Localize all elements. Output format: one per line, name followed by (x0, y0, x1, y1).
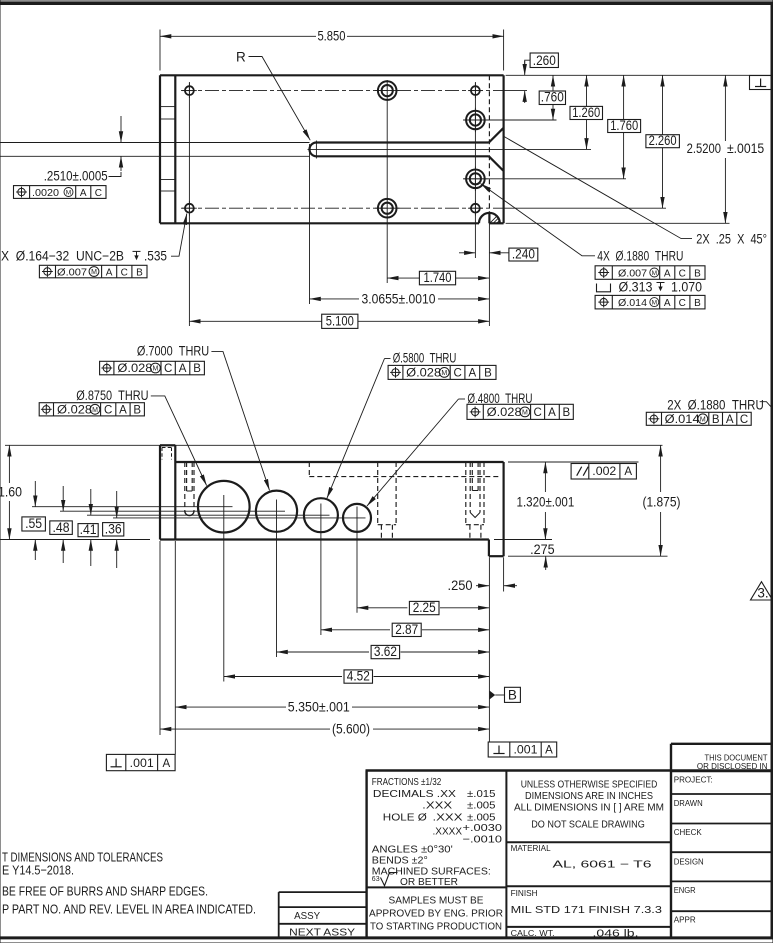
counterbore hole right-upper (463, 108, 487, 132)
svg-text:UNLESS OTHERWISE SPECIFIED: UNLESS OTHERWISE SPECIFIED (521, 779, 658, 791)
column line right holes (474, 82, 476, 258)
slot centerline right extension (326, 148, 592, 150)
counterbore hole bottom-center (375, 199, 399, 218)
dimension 3.62 (277, 651, 370, 653)
dimension (1.875) (660, 445, 662, 492)
svg-text:.760: .760 (541, 90, 564, 105)
dimension .48 (50, 521, 73, 535)
svg-text:.046 lb.: .046 lb. (593, 928, 639, 940)
flag note triangle 3 (751, 582, 773, 600)
svg-text:−.0010: −.0010 (463, 834, 503, 846)
svg-text:±.015: ±.015 (467, 788, 496, 800)
svg-text:MIL STD 171 FINISH 7.3.3: MIL STD 171 FINISH 7.3.3 (511, 904, 662, 916)
dimension .260 (530, 53, 558, 68)
svg-text:Ø.028: Ø.028 (406, 368, 441, 380)
svg-text:Ø.313: Ø.313 (619, 280, 653, 295)
hatched notch at bottom edge (479, 213, 500, 223)
bore center verticals (224, 495, 357, 682)
svg-text:ENGR: ENGR (674, 885, 696, 895)
counterbore hole top-center (375, 81, 399, 100)
tapped hole bottom-left (182, 201, 197, 216)
fcf .007 M A C B row1 (595, 266, 705, 280)
bore circle .7000 (256, 491, 297, 532)
svg-text:.41: .41 (80, 522, 97, 537)
dimension (5.600) (160, 728, 330, 730)
fcf .5800 (388, 365, 496, 379)
svg-text:C: C (95, 188, 102, 199)
svg-text:A: A (664, 269, 671, 280)
svg-text:DESIGN: DESIGN (674, 857, 704, 867)
svg-text:2.87: 2.87 (395, 622, 418, 637)
dimension 1.760 (623, 75, 625, 119)
extension line bottom left (0, 539, 150, 541)
svg-text:.535: .535 (144, 248, 167, 263)
svg-text:Ø.028: Ø.028 (57, 404, 92, 416)
svg-text:CHECK: CHECK (674, 827, 702, 837)
dimension 1.740 (387, 277, 419, 279)
slot chamfer edges 2X .25 X 45 (489, 128, 504, 171)
svg-text:5.350±.001: 5.350±.001 (288, 700, 350, 715)
dimension .760 (552, 75, 554, 91)
svg-text:.55: .55 (25, 516, 42, 531)
hidden step line (488, 75, 490, 212)
fcf perpendicular .001 A right (488, 742, 557, 757)
svg-text:B: B (193, 363, 201, 375)
svg-text:4.52: 4.52 (347, 669, 370, 684)
dimension 4.52 (224, 676, 342, 678)
centerline hole row upper (181, 90, 504, 92)
tapped hole bottom-right (468, 201, 483, 216)
fcf parallelism .002 A (571, 464, 636, 480)
dimension 1.260 (586, 75, 588, 106)
svg-text:Ø.014: Ø.014 (618, 298, 647, 309)
column line step below plate (488, 223, 490, 326)
svg-text:R: R (236, 50, 246, 65)
svg-text:DIMENSIONS ARE IN INCHES: DIMENSIONS ARE IN INCHES (525, 790, 653, 802)
svg-text:1.320±.001: 1.320±.001 (517, 495, 575, 510)
dimension .36 (103, 523, 124, 536)
top view plate outline (160, 75, 504, 223)
svg-text:3.: 3. (757, 586, 768, 601)
dimension 5.350 +-.001 (175, 706, 286, 708)
column line left holes (188, 82, 190, 326)
svg-text:2.25: 2.25 (413, 600, 436, 615)
svg-text:A: A (545, 744, 553, 756)
svg-text:Ø.028: Ø.028 (117, 363, 152, 375)
fcf .7000 (100, 361, 205, 375)
svg-text:B: B (694, 269, 701, 280)
assy table (279, 892, 367, 938)
svg-text:C: C (679, 269, 686, 280)
svg-text:Ø.7000 THRU: Ø.7000 THRU (137, 344, 209, 359)
svg-text:C: C (453, 368, 461, 380)
svg-text:2.260: 2.260 (649, 133, 677, 148)
svg-text:TO STARTING PRODUCTION: TO STARTING PRODUCTION (370, 921, 502, 933)
svg-text:B: B (694, 298, 701, 309)
datum flag B (490, 691, 496, 700)
svg-text:4X Ø.1880 THRU: 4X Ø.1880 THRU (597, 249, 683, 264)
fcf .014 B A C (646, 412, 751, 425)
svg-text:APPROVED BY ENG. PRIOR: APPROVED BY ENG. PRIOR (369, 908, 503, 920)
svg-text:.275: .275 (530, 542, 555, 557)
svg-text:B: B (133, 404, 141, 416)
svg-text:C: C (679, 298, 686, 309)
svg-text:A: A (119, 404, 127, 416)
extension line bottom edge right (506, 222, 730, 224)
dimension 2.5200 +-.0015 (724, 75, 726, 141)
svg-text:.48: .48 (53, 520, 70, 535)
extension line top edge right (506, 74, 772, 76)
svg-text:Ø.028: Ø.028 (487, 407, 522, 419)
svg-text:BE FREE OF BURRS AND SHARP EDG: BE FREE OF BURRS AND SHARP EDGES. (2, 883, 208, 898)
dimension .41 (78, 524, 98, 537)
dimension 1.60 (8, 445, 10, 483)
column line slot end (309, 144, 311, 304)
tolerance block border (365, 771, 367, 939)
svg-text:5.100: 5.100 (326, 313, 354, 328)
dimension 5.100 (189, 320, 321, 322)
svg-text:DRAWN: DRAWN (674, 798, 703, 808)
dimension 2.260 (662, 75, 664, 134)
dimension .240 (459, 252, 475, 254)
svg-text:DO NOT SCALE DRAWING: DO NOT SCALE DRAWING (531, 819, 645, 831)
tapped hole top-right (468, 83, 483, 98)
svg-text:.240: .240 (512, 246, 535, 261)
extension line cbore row lower (463, 178, 626, 180)
svg-text:A: A (726, 414, 734, 426)
counterbore .313 depth 1.070 row2 (597, 284, 611, 292)
top view band hidden marks (160, 107, 175, 191)
svg-text:5.850: 5.850 (317, 28, 345, 43)
svg-text:NEXT ASSY: NEXT ASSY (289, 927, 355, 939)
extension verticals below side view (160, 541, 504, 754)
fcf perpendicular .001 A left (106, 754, 175, 770)
svg-text:CALC. WT.: CALC. WT. (511, 928, 555, 938)
svg-text:B: B (712, 414, 720, 426)
fcf .8750 (39, 403, 144, 416)
svg-text:A: A (179, 363, 187, 375)
svg-text:1.070: 1.070 (671, 280, 702, 295)
svg-text:OR DISCLOSED IN: OR DISCLOSED IN (697, 761, 768, 771)
svg-text:.260: .260 (533, 53, 556, 68)
slot outline (310, 143, 489, 157)
svg-text:.001: .001 (130, 758, 154, 770)
svg-text:(5.600): (5.600) (332, 722, 370, 737)
svg-text:E Y14.5−2018.: E Y14.5−2018. (2, 863, 74, 878)
svg-text:A: A (162, 758, 170, 770)
slot extension lines to left (0, 143, 310, 157)
svg-text:1.760: 1.760 (610, 118, 638, 133)
svg-text:APPR: APPR (674, 914, 696, 924)
svg-text:(1.875): (1.875) (643, 495, 681, 510)
svg-text:1.260: 1.260 (572, 105, 600, 120)
column line center holes (386, 80, 388, 283)
slot end center mark (308, 141, 326, 159)
svg-text:X Ø.164−32 UNC−2B: X Ø.164−32 UNC−2B (1, 248, 124, 263)
svg-text:A: A (624, 466, 632, 478)
extension line lip bottom (508, 555, 668, 557)
svg-text:FINISH: FINISH (511, 888, 538, 898)
svg-text:3.0655±.0010: 3.0655±.0010 (362, 292, 436, 307)
hidden counterbore column center (378, 462, 396, 540)
dimension 5.850 (160, 35, 316, 37)
fcf position .007 M A C B (39, 265, 147, 278)
svg-text:PROJECT:: PROJECT: (674, 775, 713, 785)
svg-text:ASSY: ASSY (294, 910, 320, 922)
svg-text:.001: .001 (514, 744, 538, 756)
svg-text:+.0030: +.0030 (463, 822, 503, 834)
fcf .4800 (467, 404, 573, 419)
svg-text:A: A (548, 407, 556, 419)
svg-text:A: A (106, 268, 113, 279)
bore center horizontals (32, 507, 366, 518)
svg-text:MATERIAL: MATERIAL (511, 843, 551, 853)
svg-text:B: B (562, 407, 570, 419)
title block outer top line (366, 769, 772, 771)
svg-text:2X .25 X 45°: 2X .25 X 45° (696, 232, 767, 247)
svg-text:Ø.8750 THRU: Ø.8750 THRU (76, 388, 148, 403)
svg-text:HOLE Ø: HOLE Ø (383, 811, 427, 823)
svg-text:C: C (740, 414, 748, 426)
fcf .014 M A C B row3 (595, 295, 705, 309)
svg-text:.002: .002 (592, 466, 616, 478)
svg-text:A: A (468, 368, 476, 380)
svg-text:.250: .250 (448, 578, 473, 593)
perpendicularity frame top right (750, 76, 772, 90)
svg-text:B: B (484, 368, 492, 380)
svg-text:SAMPLES MUST BE: SAMPLES MUST BE (389, 895, 484, 907)
extension lines 5.850 (160, 30, 504, 71)
counterbore hole right-lower (463, 167, 487, 191)
tab hidden slot (162, 448, 172, 460)
svg-text:C: C (104, 404, 112, 416)
svg-text:3.62: 3.62 (374, 644, 397, 659)
extension line top edge right (508, 461, 639, 463)
dimension .55 (22, 517, 46, 531)
fcf position .0020 M A C (14, 186, 107, 199)
svg-text:2.5200: 2.5200 (687, 141, 721, 156)
svg-text:.36: .36 (105, 522, 122, 537)
svg-text:2X Ø.1880 THRU: 2X Ø.1880 THRU (667, 397, 764, 412)
svg-text:.2510±.0005: .2510±.0005 (44, 169, 108, 184)
tapped hole top-left (182, 83, 197, 98)
dimension 2.87 (321, 629, 390, 631)
extension line step corner (494, 539, 552, 541)
centerline hole row lower (181, 207, 504, 209)
svg-text:C: C (533, 407, 541, 419)
svg-text:Ø.007: Ø.007 (57, 268, 87, 279)
svg-text:A: A (664, 298, 671, 309)
svg-text:DECIMALS .XX: DECIMALS .XX (373, 788, 456, 800)
svg-text:1.60: 1.60 (0, 484, 22, 499)
svg-text:ALL DIMENSIONS IN [ ] ARE MM: ALL DIMENSIONS IN [ ] ARE MM (514, 802, 664, 814)
svg-text:C: C (164, 363, 172, 375)
hidden holes column right (466, 462, 484, 540)
hidden slot bottom (309, 462, 499, 477)
svg-text:Ø.007: Ø.007 (618, 269, 647, 280)
svg-text:63: 63 (372, 876, 380, 883)
bore circle .4800 (343, 504, 371, 532)
svg-text:Ø.014: Ø.014 (665, 414, 701, 426)
material column border (505, 771, 507, 939)
dimension 2.25 (357, 607, 407, 609)
svg-text:FRACTIONS ±1/32: FRACTIONS ±1/32 (372, 776, 442, 788)
svg-text:B: B (136, 268, 143, 279)
bore circle .5800 (304, 498, 338, 532)
svg-text:P PART NO. AND REV. LEVEL IN A: P PART NO. AND REV. LEVEL IN AREA INDICA… (2, 902, 256, 917)
sheet bottom border (0, 936, 773, 939)
side view outline (160, 445, 504, 556)
svg-text:.0020: .0020 (32, 188, 59, 199)
right column block (671, 743, 772, 745)
svg-text:.XXX: .XXX (422, 800, 452, 812)
hidden tapped hole left (185, 462, 194, 511)
sheet right border (770, 3, 772, 939)
top view left band line (174, 75, 176, 223)
svg-text:±.005: ±.005 (467, 800, 496, 812)
svg-text:.XXXX: .XXXX (433, 826, 463, 838)
svg-text:A: A (80, 188, 87, 199)
extension line tab top (5, 444, 663, 446)
svg-text:±.0015: ±.0015 (727, 141, 764, 156)
svg-text:1.740: 1.740 (424, 270, 452, 285)
svg-text:AL, 6061 − T6: AL, 6061 − T6 (553, 859, 652, 871)
sheet top border (0, 1, 773, 5)
dimension 1.320 +-.001 (544, 462, 546, 492)
svg-text:B: B (508, 688, 517, 703)
dimension 3.0655 +-.0010 (310, 298, 360, 300)
extension line cbore row upper (463, 119, 556, 121)
svg-text:OR BETTER: OR BETTER (400, 876, 458, 888)
svg-text:C: C (121, 268, 128, 279)
svg-text:.XXX: .XXX (433, 811, 463, 823)
svg-text:Ø.5800 THRU: Ø.5800 THRU (393, 351, 457, 366)
bore circle .8750 (198, 481, 250, 533)
